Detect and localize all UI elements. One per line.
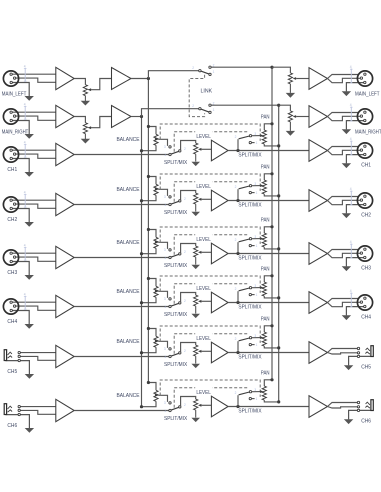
- wire pan wiper CH4: [252, 287, 261, 289]
- bus MAIN_RIGHT left: [141, 117, 143, 407]
- wire CH6 output sleeve/ground: [349, 410, 371, 419]
- switch SPLIT/MIX left CH2 contacts: [169, 196, 171, 198]
- pin marker 4 MAIN_LEFT output: [350, 69, 352, 84]
- potentiometer MAIN_LEFT output level: [288, 73, 292, 84]
- svg-text:4: 4: [350, 103, 352, 107]
- ground LEVEL CH4: [191, 314, 200, 318]
- svg-text:CH1: CH1: [361, 163, 371, 169]
- wire MAIN_RIGHT to link switch: [142, 109, 199, 117]
- connector MAIN_RIGHT output XLR: [357, 109, 372, 124]
- wire CH6 ring to amp: [19, 410, 56, 414]
- wire CH6 output tip: [328, 403, 358, 407]
- wire pan wiper CH2: [252, 185, 261, 187]
- wiper BALANCE CH2: [155, 188, 158, 191]
- op-amp CH4 input buffer: [56, 295, 74, 317]
- connector CH4 output XLR: [357, 295, 372, 310]
- wire CH6 output ring: [328, 407, 358, 409]
- node pan-R CH5: [277, 346, 280, 349]
- potentiometer BALANCE CH3: [154, 237, 158, 248]
- node pan-L CH5: [270, 324, 273, 327]
- svg-text:1: 1: [256, 397, 258, 401]
- pin marker 4 MAIN_RIGHT output: [350, 107, 352, 122]
- ground CH4 input: [25, 324, 34, 329]
- wire CH5 sleeve to ground: [5, 361, 29, 375]
- dashed outer box CH5: [160, 326, 260, 343]
- wire MAIN_RIGHT pin1 to amp: [11, 111, 56, 113]
- wire CH3 output pin1: [328, 250, 359, 254]
- wire balance bottom hook CH3: [142, 248, 157, 253]
- connector CH4 input XLR: [3, 299, 18, 314]
- pin marker 4 CH2 output: [350, 191, 352, 206]
- potentiometer LEVEL CH5: [194, 345, 198, 356]
- switch SPLIT/MIX left CH1 contacts: [169, 146, 171, 148]
- op-amp CH6 input buffer: [56, 399, 74, 421]
- ground CH5 output: [344, 365, 353, 370]
- node CH4 output junction: [236, 301, 239, 304]
- connector CH5 output jack: [371, 346, 373, 357]
- wire pan top hook CH5: [264, 326, 272, 332]
- wire CH1 output pin2: [328, 150, 361, 154]
- ground MAIN_LEFT input: [25, 96, 34, 101]
- wire MAIN_RIGHT output pin1: [328, 113, 359, 117]
- dashed outer box CH1: [160, 124, 260, 141]
- svg-text:4: 4: [350, 187, 352, 191]
- node pan-L CH6: [270, 378, 273, 381]
- node balance-R CH1: [140, 149, 143, 152]
- wire MAIN_LEFT driver to bus: [131, 78, 148, 80]
- wire CH6 output: [228, 406, 309, 408]
- svg-text:1: 1: [164, 409, 166, 413]
- wire MAIN_LEFT output pin3 ground: [346, 83, 363, 92]
- switch LINK MAIN_LEFT arm: [201, 71, 209, 74]
- svg-text:SPLIT/MIX: SPLIT/MIX: [238, 409, 261, 415]
- wire CH2 pin2 to amp: [15, 204, 56, 208]
- node pan-R CH1: [277, 144, 280, 147]
- potentiometer PAN CH2: [262, 180, 266, 194]
- wire CH4 pin2 to amp: [15, 306, 56, 310]
- wiper LEVEL CH4: [198, 300, 201, 303]
- svg-text:3: 3: [164, 347, 166, 351]
- dashed LINK coupling: [189, 75, 204, 117]
- wire CH4 pin1 to amp: [11, 301, 56, 303]
- svg-text:LEVEL: LEVEL: [196, 237, 210, 243]
- label LEVEL CH3: [195, 234, 212, 242]
- op-amp CH5 input buffer: [56, 345, 74, 367]
- pin marker 4 CH4 input: [24, 296, 26, 310]
- op-amp MAIN_LEFT output driver: [309, 68, 328, 90]
- connector MAIN_LEFT output XLR: [357, 71, 372, 86]
- label LEVEL CH1: [195, 131, 212, 139]
- pin marker 4 CH2 input: [24, 194, 26, 208]
- wire switch to level pot CH2: [181, 191, 196, 201]
- wire CH5 output: [228, 352, 309, 354]
- switch SPLIT/MIX left CH3 arm: [171, 254, 179, 257]
- ground CH6 output: [344, 419, 353, 424]
- op-amp MAIN_RIGHT output driver: [309, 106, 328, 128]
- connector CH1 output XLR: [357, 143, 372, 158]
- potentiometer LEVEL CH2: [194, 193, 198, 204]
- wire pan bottom hook CH2: [264, 194, 278, 196]
- wiper BALANCE CH4: [155, 290, 158, 293]
- pin marker 4 CH4 output: [350, 293, 352, 308]
- svg-text:BALANCE: BALANCE: [117, 137, 140, 143]
- potentiometer MAIN_RIGHT output level: [288, 111, 292, 122]
- wire balance top hook CH5: [148, 329, 156, 337]
- op-amp MAIN_LEFT input buffer: [56, 67, 74, 89]
- op-amp CH3 output driver: [309, 243, 328, 265]
- op-amp CH2 output driver: [309, 190, 328, 212]
- wiper BALANCE CH5: [155, 340, 158, 343]
- op-amp CH3 input buffer: [56, 246, 74, 268]
- ground CH1 output: [342, 163, 351, 168]
- svg-text:3: 3: [164, 248, 166, 252]
- svg-text:PAN: PAN: [261, 218, 270, 224]
- op-amp MAIN_LEFT bus driver: [112, 68, 132, 90]
- wire MAIN_RIGHT pin2 to amp: [15, 116, 56, 120]
- wire CH1 pin1 to amp: [11, 149, 56, 151]
- node balance-L CH1: [147, 125, 150, 128]
- wire pan bottom hook CH4: [264, 296, 278, 298]
- switch SPLIT/MIX right CH2: [237, 189, 239, 200]
- svg-text:PAN: PAN: [261, 267, 270, 273]
- node pan-L CH2: [270, 172, 273, 175]
- switch SPLIT/MIX left CH3 contacts: [169, 249, 171, 251]
- dashed inner box CH3: [174, 235, 248, 255]
- wire CH5 output ring: [328, 353, 358, 355]
- svg-text:BALANCE: BALANCE: [117, 240, 140, 246]
- wire CH4 pin3 to ground: [11, 311, 29, 325]
- svg-text:SPLIT/MIX: SPLIT/MIX: [164, 416, 187, 422]
- svg-text:1: 1: [164, 355, 166, 359]
- wire MAIN_RIGHT amp to trim pot: [74, 117, 85, 123]
- svg-text:SPLIT/MIX: SPLIT/MIX: [238, 305, 261, 311]
- wire CH5 output tip: [328, 349, 358, 353]
- svg-text:4: 4: [350, 65, 352, 69]
- potentiometer MAIN_RIGHT input trim: [83, 123, 87, 134]
- node pan-L CH3: [270, 225, 273, 228]
- wiper MAIN_RIGHT output level: [293, 115, 296, 118]
- node pan-R CH4: [277, 296, 280, 299]
- svg-text:SPLIT/MIX: SPLIT/MIX: [164, 160, 187, 166]
- ground LEVEL CH5: [191, 364, 200, 368]
- potentiometer BALANCE CH6: [154, 390, 158, 401]
- switch SPLIT/MIX right CH1: [237, 139, 239, 150]
- wire balance bottom hook CH5: [142, 347, 157, 352]
- wire CH2 output: [228, 200, 309, 202]
- wire CH6 channel signal: [74, 410, 169, 412]
- node MAIN_RIGHT bus junction: [140, 115, 143, 118]
- wiper BALANCE CH3: [155, 241, 158, 244]
- svg-text:4: 4: [24, 190, 26, 194]
- label LEVEL CH5: [195, 333, 212, 341]
- wire CH3 pin1 to amp: [11, 252, 56, 254]
- wire CH5 tip to amp: [19, 352, 56, 354]
- wire switch to level pot CH6: [181, 397, 196, 407]
- wiper LEVEL CH6: [198, 404, 201, 407]
- wire balance bottom hook CH1: [142, 145, 157, 150]
- svg-text:2: 2: [184, 197, 186, 201]
- connector CH1 input XLR: [3, 147, 18, 162]
- svg-text:1: 1: [213, 108, 215, 112]
- svg-text:SPLIT/MIX: SPLIT/MIX: [164, 263, 187, 269]
- wiper BALANCE CH6: [155, 394, 158, 397]
- svg-text:4: 4: [350, 137, 352, 141]
- svg-text:2: 2: [184, 299, 186, 303]
- potentiometer PAN CH6: [262, 386, 266, 400]
- pin marker 4 CH1 output: [350, 141, 352, 156]
- svg-text:2: 2: [184, 250, 186, 254]
- op-amp CH2 input buffer: [56, 193, 74, 215]
- switch LINK MAIN_LEFT common: [199, 70, 201, 72]
- svg-text:2: 2: [184, 403, 186, 407]
- potentiometer PAN CH4: [262, 282, 266, 296]
- wire CH4 output pin2: [328, 302, 361, 306]
- node balance-R CH6: [140, 405, 143, 408]
- wire pan top hook CH3: [264, 227, 272, 233]
- op-amp CH5 level amp: [211, 342, 228, 363]
- node pan-L CH1: [270, 122, 273, 125]
- svg-text:BALANCE: BALANCE: [117, 289, 140, 295]
- wire CH2 output pin1: [328, 197, 359, 201]
- op-amp CH5 output driver: [309, 342, 328, 364]
- svg-text:1: 1: [256, 343, 258, 347]
- svg-text:PAN: PAN: [261, 115, 270, 121]
- dashed outer box CH3: [160, 227, 260, 244]
- svg-text:4: 4: [24, 64, 26, 68]
- wire balance bottom hook CH4: [142, 297, 157, 302]
- ground LEVEL CH6: [191, 418, 200, 422]
- connector CH3 output XLR: [357, 246, 372, 261]
- connector CH5 input jack: [4, 350, 6, 361]
- svg-text:3: 3: [164, 401, 166, 405]
- wire pan top hook CH4: [264, 276, 272, 282]
- svg-text:4: 4: [24, 102, 26, 106]
- dashed outer box CH6: [160, 380, 260, 397]
- svg-text:1: 1: [256, 244, 258, 248]
- svg-text:MAIN_LEFT: MAIN_LEFT: [355, 91, 380, 97]
- svg-text:CH5: CH5: [7, 369, 17, 375]
- svg-text:2: 2: [235, 238, 237, 242]
- node balance-R CH4: [140, 301, 143, 304]
- ground MAIN_RIGHT output: [342, 129, 351, 134]
- wiper MAIN_LEFT trim to buffer: [88, 88, 91, 91]
- svg-text:4: 4: [24, 292, 26, 296]
- svg-text:3: 3: [164, 145, 166, 149]
- label LEVEL CH4: [195, 283, 212, 291]
- wire CH4 channel signal: [74, 306, 169, 308]
- wire pan bottom hook CH5: [264, 346, 278, 348]
- ground CH3 output: [342, 266, 351, 271]
- node CH3 output junction: [236, 252, 239, 255]
- connector CH6 input jack: [4, 404, 6, 415]
- wire pan wiper CH5: [252, 337, 261, 339]
- svg-text:LINK: LINK: [201, 89, 213, 95]
- wire MAIN_LEFT to output pot: [272, 67, 290, 73]
- wire CH5 ring to amp: [19, 356, 56, 360]
- ground MAIN_RIGHT trim: [81, 139, 90, 144]
- svg-text:4: 4: [350, 240, 352, 244]
- potentiometer LEVEL CH4: [194, 295, 198, 306]
- node pan-R CH2: [277, 194, 280, 197]
- svg-text:4: 4: [24, 140, 26, 144]
- svg-text:LEVEL: LEVEL: [196, 286, 210, 292]
- wire CH1 pin3 to ground: [11, 159, 29, 173]
- op-amp CH1 level amp: [211, 140, 228, 161]
- wire MAIN_LEFT amp to trim pot: [74, 79, 85, 85]
- svg-text:2: 2: [184, 349, 186, 353]
- potentiometer BALANCE CH2: [154, 184, 158, 195]
- potentiometer LEVEL CH1: [194, 143, 198, 154]
- svg-text:MAIN_LEFT: MAIN_LEFT: [2, 91, 27, 97]
- dashed outer box CH4: [160, 276, 260, 293]
- op-amp CH4 level amp: [211, 292, 228, 313]
- wire MAIN_LEFT output pin2: [328, 78, 361, 82]
- wire CH1 pin2 to amp: [15, 154, 56, 158]
- ground CH6 input: [25, 428, 34, 433]
- label LEVEL CH2: [195, 181, 212, 189]
- switch SPLIT/MIX left CH4 contacts: [169, 298, 171, 300]
- svg-text:SPLIT/MIX: SPLIT/MIX: [164, 210, 187, 216]
- ground LEVEL CH1: [191, 162, 200, 166]
- wire CH2 output pin3 ground: [346, 205, 363, 214]
- node pan-R CH3: [277, 247, 280, 250]
- wire CH1 channel signal: [74, 154, 169, 156]
- svg-text:CH5: CH5: [361, 365, 371, 371]
- connector MAIN_LEFT input XLR: [3, 71, 18, 86]
- svg-text:SPLIT/MIX: SPLIT/MIX: [238, 153, 261, 159]
- wire pan wiper CH6: [252, 391, 261, 393]
- dashed inner box CH1: [174, 132, 248, 152]
- wire CH3 channel signal: [74, 257, 169, 259]
- wire switch to level pot CH3: [181, 244, 196, 254]
- switch SPLIT/MIX left CH2 arm: [171, 201, 179, 204]
- wire CH4 output pin1: [328, 299, 359, 303]
- wire CH1 output: [228, 150, 309, 152]
- wiper MAIN_RIGHT trim to buffer: [88, 126, 91, 129]
- potentiometer PAN CH1: [262, 130, 266, 144]
- label LEVEL CH6: [195, 387, 212, 395]
- node balance-L CH5: [147, 327, 150, 330]
- wire MAIN_LEFT pin2 to amp: [15, 78, 56, 82]
- svg-text:BALANCE: BALANCE: [117, 187, 140, 193]
- svg-text:1: 1: [164, 203, 166, 207]
- switch SPLIT/MIX right CH3: [237, 242, 239, 253]
- svg-text:2: 2: [235, 135, 237, 139]
- svg-text:2: 2: [235, 185, 237, 189]
- svg-text:1: 1: [164, 305, 166, 309]
- pin marker 4 MAIN_LEFT input: [24, 68, 26, 82]
- wire CH2 pin1 to amp: [11, 199, 56, 201]
- wire balance top hook CH3: [148, 230, 156, 238]
- ground MAIN_RIGHT input: [25, 134, 34, 139]
- wiper MAIN_LEFT output level: [293, 77, 296, 80]
- wiper LEVEL CH2: [198, 198, 201, 201]
- node CH1 output junction: [236, 149, 239, 152]
- wire pan top hook CH1: [264, 124, 272, 130]
- dashed outer box CH2: [160, 174, 260, 191]
- wire switch to level pot CH5: [181, 343, 196, 353]
- svg-text:CH4: CH4: [7, 319, 17, 325]
- connector MAIN_RIGHT input XLR: [3, 109, 18, 124]
- wire CH6 tip to amp: [19, 406, 56, 408]
- wire switch to level pot CH1: [181, 141, 196, 151]
- ground CH1 input: [25, 172, 34, 177]
- switch SPLIT/MIX left CH1 arm: [171, 151, 179, 154]
- svg-text:CH2: CH2: [361, 213, 371, 219]
- bus MAIN_RIGHT right: [278, 105, 280, 402]
- potentiometer BALANCE CH1: [154, 134, 158, 145]
- op-amp CH6 output driver: [309, 396, 328, 418]
- wire CH5 channel signal: [74, 356, 169, 358]
- svg-text:LEVEL: LEVEL: [196, 390, 210, 396]
- ground CH2 output: [342, 213, 351, 218]
- node MAIN_LEFT right bus junction: [270, 66, 273, 69]
- svg-text:CH6: CH6: [361, 419, 371, 425]
- node MAIN_RIGHT right bus junction: [277, 104, 280, 107]
- wire CH4 output: [228, 302, 309, 304]
- svg-text:3: 3: [164, 297, 166, 301]
- ground LEVEL CH2: [191, 212, 200, 216]
- wire balance bottom hook CH6: [142, 401, 157, 406]
- svg-text:3: 3: [164, 195, 166, 199]
- switch SPLIT/MIX right CH5: [237, 341, 239, 352]
- svg-text:CH6: CH6: [7, 423, 17, 429]
- svg-text:1: 1: [164, 153, 166, 157]
- pin marker 4 MAIN_RIGHT input: [24, 106, 26, 120]
- dashed inner box CH4: [174, 284, 248, 304]
- ground CH3 input: [25, 275, 34, 280]
- connector CH2 output XLR: [357, 193, 372, 208]
- ground MAIN_LEFT trim: [81, 101, 90, 106]
- svg-text:PAN: PAN: [261, 165, 270, 171]
- svg-text:MAIN_RIGHT: MAIN_RIGHT: [2, 129, 29, 135]
- switch LINK MAIN_RIGHT arm: [201, 109, 209, 112]
- node CH5 output junction: [236, 351, 239, 354]
- svg-text:LEVEL: LEVEL: [196, 184, 210, 190]
- node pan-R CH6: [277, 400, 280, 403]
- svg-text:1: 1: [164, 256, 166, 260]
- wire pan bottom hook CH1: [264, 144, 278, 146]
- node balance-L CH2: [147, 175, 150, 178]
- wire LINK MAIN_RIGHT to right bus: [211, 104, 279, 106]
- wire MAIN_RIGHT output pin2: [328, 116, 361, 120]
- svg-text:CH3: CH3: [7, 270, 17, 276]
- wire CH3 output: [228, 253, 309, 255]
- wire CH5 output sleeve/ground: [349, 356, 371, 365]
- wire CH1 output pin3 ground: [346, 155, 363, 164]
- wire pan bottom hook CH3: [264, 247, 278, 249]
- wire CH6 sleeve to ground: [5, 415, 29, 429]
- svg-text:2: 2: [192, 104, 194, 108]
- svg-text:SPLIT/MIX: SPLIT/MIX: [164, 362, 187, 368]
- wire MAIN_RIGHT output pin3 ground: [346, 121, 363, 130]
- op-amp CH1 input buffer: [56, 143, 74, 165]
- wiper LEVEL CH5: [198, 350, 201, 353]
- op-amp CH2 level amp: [211, 190, 228, 211]
- wire MAIN_LEFT pin3 to ground: [11, 83, 29, 97]
- wire pan wiper CH3: [252, 238, 261, 240]
- node balance-L CH4: [147, 277, 150, 280]
- wire MAIN_LEFT to link switch: [148, 71, 198, 79]
- switch SPLIT/MIX left CH4 arm: [171, 303, 179, 306]
- connector CH6 output jack: [371, 400, 373, 411]
- svg-text:BALANCE: BALANCE: [117, 393, 140, 399]
- svg-text:SPLIT/MIX: SPLIT/MIX: [164, 312, 187, 318]
- wire LINK MAIN_LEFT to right bus: [211, 66, 272, 68]
- node balance-R CH2: [140, 199, 143, 202]
- svg-text:SPLIT/MIX: SPLIT/MIX: [238, 203, 261, 209]
- wire CH2 output pin2: [328, 200, 361, 204]
